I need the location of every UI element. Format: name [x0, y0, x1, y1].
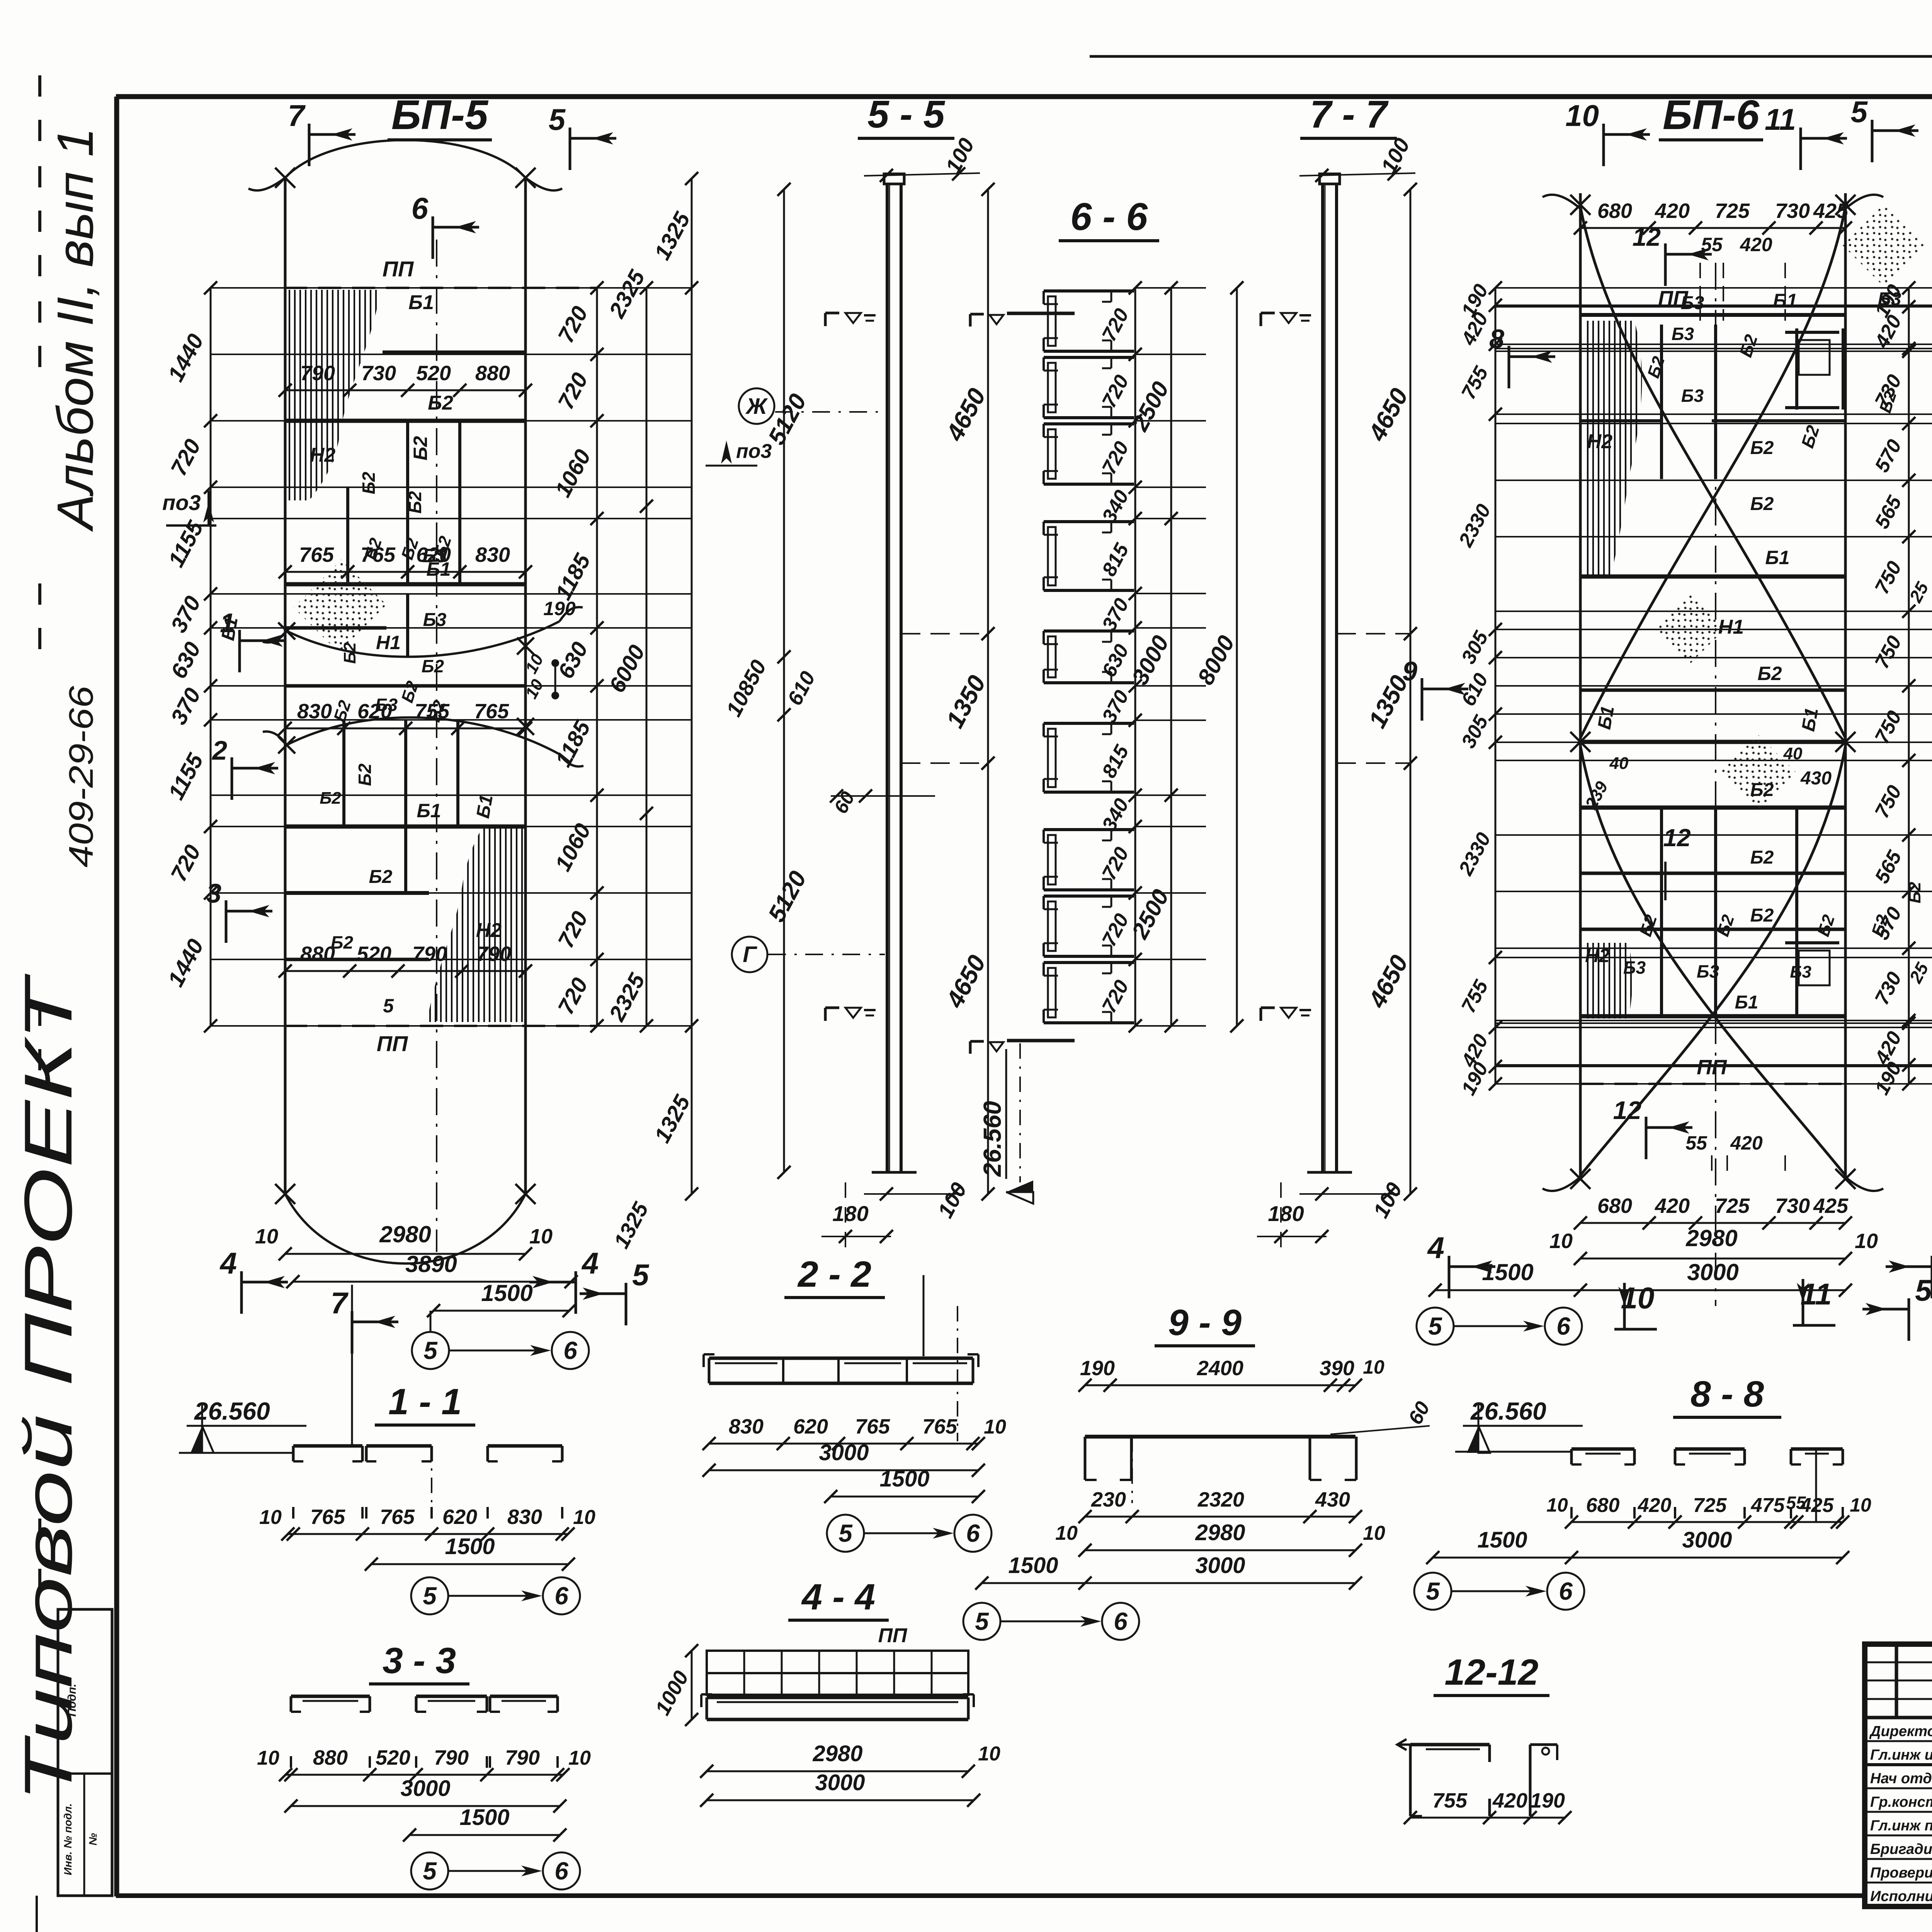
svg-text:Б2: Б2: [359, 472, 379, 495]
svg-text:БП-5: БП-5: [391, 91, 489, 138]
svg-text:6: 6: [966, 1519, 980, 1547]
svg-text:10: 10: [1546, 1494, 1568, 1516]
svg-text:10: 10: [1549, 1230, 1573, 1253]
svg-text:190: 190: [543, 598, 576, 619]
svg-text:Ж: Ж: [745, 394, 768, 419]
svg-text:880: 880: [475, 362, 510, 385]
svg-text:409-29-66: 409-29-66: [62, 686, 100, 867]
svg-text:Б2: Б2: [1750, 780, 1774, 800]
svg-text:765: 765: [922, 1415, 957, 1438]
svg-text:Б2: Б2: [369, 867, 393, 887]
svg-text:230: 230: [1091, 1488, 1126, 1511]
svg-text:10: 10: [259, 1506, 282, 1529]
svg-text:Б3: Б3: [1672, 324, 1694, 344]
svg-text:Типовой ПРОЕКТ: Типовой ПРОЕКТ: [11, 973, 86, 1803]
svg-text:10: 10: [257, 1747, 279, 1769]
svg-text:765: 765: [299, 543, 334, 566]
svg-text:1: 1: [220, 608, 235, 638]
svg-text:3000: 3000: [819, 1440, 869, 1465]
svg-text:Б3: Б3: [423, 610, 447, 630]
svg-text:6: 6: [563, 1337, 577, 1364]
svg-text:40: 40: [1783, 744, 1803, 763]
svg-text:40: 40: [1609, 754, 1629, 773]
svg-text:190: 190: [1080, 1357, 1115, 1380]
svg-text:830: 830: [507, 1505, 542, 1529]
svg-text:Б3: Б3: [1790, 963, 1811, 981]
svg-text:520: 520: [416, 362, 451, 385]
svg-text:880: 880: [300, 942, 335, 966]
svg-text:Н1: Н1: [376, 632, 401, 653]
svg-text:12-12: 12-12: [1445, 1652, 1539, 1693]
svg-text:5: 5: [423, 1857, 437, 1885]
svg-text:Б3: Б3: [1623, 957, 1646, 978]
svg-text:680: 680: [1597, 199, 1632, 223]
svg-text:4: 4: [219, 1246, 237, 1280]
svg-text:9: 9: [1402, 656, 1417, 686]
svg-text:Б3: Б3: [1681, 293, 1704, 313]
svg-text:ПП: ПП: [383, 257, 414, 281]
svg-text:55: 55: [1685, 1132, 1708, 1154]
svg-text:3000: 3000: [1195, 1553, 1245, 1578]
svg-text:830: 830: [729, 1415, 764, 1438]
svg-text:БП-6: БП-6: [1663, 91, 1760, 138]
svg-text:Б1: Б1: [1735, 992, 1759, 1013]
svg-text:5: 5: [975, 1607, 989, 1635]
svg-text:12: 12: [1663, 824, 1690, 852]
svg-text:10: 10: [978, 1743, 1000, 1765]
svg-text:Б2: Б2: [428, 392, 453, 414]
svg-text:1500: 1500: [445, 1534, 495, 1559]
svg-text:Инв. № подл.: Инв. № подл.: [62, 1803, 74, 1875]
svg-text:180: 180: [1268, 1201, 1304, 1226]
svg-text:5 - 5: 5 - 5: [867, 93, 945, 136]
svg-text:10: 10: [255, 1225, 278, 1248]
svg-text:425: 425: [1813, 199, 1849, 223]
svg-text:Б1: Б1: [1594, 704, 1618, 731]
svg-text:765: 765: [474, 700, 509, 723]
svg-text:Гр.констр: Гр.констр: [1870, 1794, 1932, 1810]
svg-text:180: 180: [832, 1201, 868, 1226]
svg-text:1500: 1500: [481, 1280, 532, 1306]
svg-text:Гл.инж пр: Гл.инж пр: [1870, 1818, 1932, 1834]
svg-text:680: 680: [1597, 1194, 1632, 1218]
svg-text:420: 420: [1655, 1194, 1690, 1218]
svg-text:Б2: Б2: [331, 932, 354, 952]
svg-text:2980: 2980: [1195, 1520, 1245, 1545]
svg-text:ПП: ПП: [377, 1031, 408, 1056]
svg-text:Б3: Б3: [375, 695, 398, 715]
svg-text:10: 10: [984, 1416, 1006, 1438]
svg-text:6: 6: [554, 1857, 568, 1885]
svg-text:1500: 1500: [459, 1805, 509, 1830]
svg-text:Б1: Б1: [1773, 290, 1797, 311]
svg-text:11: 11: [1765, 102, 1796, 136]
svg-text:Б2: Б2: [355, 764, 375, 786]
svg-text:880: 880: [313, 1746, 348, 1769]
svg-text:6: 6: [554, 1582, 568, 1610]
svg-text:26.560: 26.560: [1470, 1397, 1546, 1425]
svg-text:430: 430: [1315, 1488, 1350, 1511]
svg-text:420: 420: [1638, 1494, 1672, 1517]
svg-text:55: 55: [1786, 1493, 1806, 1513]
svg-text:725: 725: [1715, 1194, 1750, 1218]
svg-text:190: 190: [1530, 1789, 1565, 1812]
svg-text:6: 6: [1556, 1312, 1570, 1340]
svg-text:5: 5: [838, 1519, 853, 1547]
svg-text:7: 7: [331, 1286, 349, 1320]
svg-text:Б1: Б1: [426, 558, 451, 580]
svg-text:9 - 9: 9 - 9: [1168, 1302, 1242, 1343]
svg-text:Н2: Н2: [476, 919, 502, 942]
svg-text:Директор: Директор: [1869, 1723, 1932, 1740]
svg-text:730: 730: [361, 362, 396, 385]
svg-text:5: 5: [1426, 1577, 1440, 1605]
svg-text:765: 765: [380, 1505, 415, 1529]
svg-text:830: 830: [475, 543, 510, 566]
svg-text:3000: 3000: [815, 1770, 865, 1795]
svg-text:390: 390: [1320, 1357, 1354, 1380]
svg-text:2400: 2400: [1197, 1357, 1243, 1380]
svg-text:680: 680: [1586, 1494, 1620, 1517]
svg-text:10: 10: [1565, 99, 1599, 133]
svg-text:520: 520: [376, 1746, 410, 1769]
svg-text:5: 5: [1851, 95, 1868, 129]
svg-text:475: 475: [1751, 1494, 1785, 1517]
svg-text:725: 725: [1693, 1494, 1727, 1517]
svg-text:Б3: Б3: [1681, 386, 1704, 406]
svg-text:Б2: Б2: [1750, 438, 1774, 458]
svg-text:10: 10: [529, 1225, 553, 1248]
svg-text:7 - 7: 7 - 7: [1310, 93, 1389, 136]
svg-text:10: 10: [1855, 1230, 1878, 1253]
svg-text:Б2: Б2: [422, 656, 444, 676]
svg-text:Проверил: Проверил: [1870, 1865, 1932, 1881]
svg-text:6: 6: [1559, 1577, 1573, 1605]
svg-text:Б2: Б2: [410, 436, 431, 460]
svg-text:1500: 1500: [1008, 1553, 1058, 1578]
svg-text:по3: по3: [162, 490, 201, 515]
svg-text:725: 725: [1715, 199, 1750, 223]
svg-text:№: №: [87, 1833, 99, 1845]
svg-text:4: 4: [1427, 1231, 1444, 1265]
svg-text:10: 10: [1621, 1281, 1655, 1315]
svg-text:Б2: Б2: [1757, 663, 1782, 684]
svg-text:5: 5: [1428, 1312, 1442, 1340]
svg-text:2: 2: [211, 735, 227, 765]
svg-text:8: 8: [1489, 324, 1504, 354]
svg-text:Н2: Н2: [310, 444, 336, 466]
svg-text:5: 5: [549, 102, 566, 136]
svg-text:10: 10: [1363, 1522, 1385, 1544]
svg-text:Б2: Б2: [1750, 905, 1774, 926]
svg-text:Н1: Н1: [1718, 616, 1744, 638]
svg-text:430: 430: [1800, 768, 1832, 789]
svg-text:830: 830: [297, 700, 332, 723]
svg-text:420: 420: [1655, 199, 1690, 223]
svg-text:Подп.: Подп.: [66, 1684, 78, 1716]
svg-text:6: 6: [412, 191, 429, 225]
svg-text:765: 765: [855, 1415, 890, 1438]
svg-text:Б2: Б2: [1750, 847, 1774, 868]
svg-text:3000: 3000: [400, 1776, 450, 1801]
svg-text:Бригадир: Бригадир: [1870, 1841, 1932, 1857]
svg-text:26.560: 26.560: [194, 1397, 270, 1425]
svg-text:Альбом II, вып 1: Альбом II, вып 1: [47, 128, 104, 532]
svg-text:6 - 6: 6 - 6: [1070, 195, 1148, 238]
svg-text:Б2: Б2: [1905, 882, 1924, 903]
svg-text:425: 425: [1813, 1194, 1849, 1218]
svg-text:1500: 1500: [1477, 1527, 1527, 1553]
svg-text:730: 730: [1775, 1194, 1810, 1218]
svg-text:Б3: Б3: [1878, 289, 1901, 310]
svg-text:2320: 2320: [1197, 1488, 1244, 1511]
svg-text:5: 5: [1915, 1273, 1932, 1307]
svg-text:3: 3: [206, 878, 221, 908]
svg-text:3000: 3000: [1687, 1259, 1738, 1285]
svg-text:Гл.инж ин: Гл.инж ин: [1870, 1747, 1932, 1763]
svg-text:3890: 3890: [405, 1251, 457, 1277]
svg-text:520: 520: [357, 942, 391, 966]
svg-text:2980: 2980: [1685, 1225, 1737, 1251]
svg-text:Б1: Б1: [1798, 706, 1822, 733]
svg-text:10: 10: [1363, 1356, 1384, 1378]
svg-text:12: 12: [1613, 1096, 1642, 1124]
svg-text:620: 620: [442, 1505, 477, 1529]
svg-text:Б2: Б2: [405, 491, 425, 514]
svg-text:1500: 1500: [879, 1466, 929, 1492]
svg-text:5: 5: [632, 1258, 650, 1292]
svg-text:5: 5: [423, 1337, 438, 1364]
svg-text:Б2: Б2: [320, 789, 341, 808]
svg-text:755: 755: [1432, 1789, 1468, 1812]
svg-text:Н2: Н2: [1585, 945, 1610, 966]
svg-text:1 - 1: 1 - 1: [388, 1381, 462, 1422]
svg-text:Н2: Н2: [1587, 430, 1613, 453]
svg-text:4 - 4: 4 - 4: [801, 1577, 875, 1617]
svg-text:ПП: ПП: [1697, 1056, 1727, 1079]
svg-text:4: 4: [581, 1246, 599, 1280]
svg-text:10: 10: [1850, 1494, 1871, 1516]
svg-text:Б1: Б1: [1765, 547, 1789, 568]
svg-text:790: 790: [505, 1746, 540, 1769]
svg-text:Б2: Б2: [1750, 494, 1774, 514]
svg-text:10: 10: [568, 1747, 591, 1769]
svg-text:11: 11: [1801, 1277, 1832, 1311]
svg-text:12: 12: [1633, 223, 1661, 251]
svg-text:2 - 2: 2 - 2: [797, 1254, 871, 1295]
svg-text:765: 765: [310, 1505, 345, 1529]
svg-text:5: 5: [383, 995, 394, 1017]
svg-text:7: 7: [288, 99, 306, 133]
svg-text:730: 730: [1775, 199, 1810, 223]
svg-text:Б1: Б1: [417, 800, 441, 821]
svg-text:Б1: Б1: [408, 291, 434, 314]
svg-text:3 - 3: 3 - 3: [383, 1640, 456, 1681]
svg-text:420: 420: [1492, 1789, 1527, 1812]
svg-text:790: 790: [434, 1746, 469, 1769]
svg-text:26.560: 26.560: [978, 1101, 1006, 1177]
svg-text:2980: 2980: [379, 1221, 431, 1247]
svg-text:10: 10: [573, 1506, 595, 1529]
svg-text:420: 420: [1730, 1132, 1763, 1154]
svg-text:Нач отд: Нач отд: [1870, 1770, 1932, 1787]
svg-text:6: 6: [1114, 1607, 1128, 1635]
svg-text:3000: 3000: [1682, 1527, 1732, 1553]
svg-text:Б1: Б1: [473, 793, 497, 820]
svg-text:ПП: ПП: [878, 1624, 908, 1647]
svg-text:1500: 1500: [1482, 1259, 1533, 1285]
svg-text:8 - 8: 8 - 8: [1690, 1374, 1764, 1415]
svg-text:420: 420: [1740, 234, 1772, 255]
svg-text:2980: 2980: [812, 1741, 862, 1766]
svg-text:Исполнил: Исполнил: [1870, 1888, 1932, 1905]
svg-text:по3: по3: [736, 440, 772, 463]
svg-text:620: 620: [793, 1415, 828, 1438]
svg-text:5: 5: [423, 1582, 437, 1610]
svg-text:Г: Г: [743, 942, 757, 967]
svg-text:10: 10: [1055, 1522, 1078, 1544]
